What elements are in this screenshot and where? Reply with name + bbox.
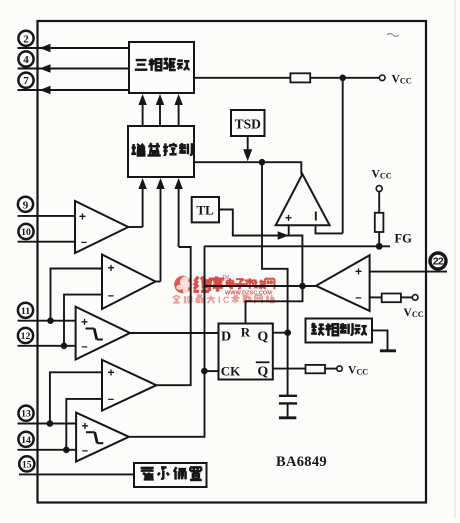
pin 14 [18,432,33,447]
svg-text:I C: I C [218,295,230,305]
text 增益控制 [131,143,192,155]
wire pin2 to three-phase-drive [18,47,130,49]
wire Q node down to capacitor [287,333,289,396]
junction pin12 node [61,343,68,350]
pin 10 [18,224,33,239]
svg-text:15: 15 [22,459,32,470]
wire op3 output riser [156,247,190,385]
junction pin11 node [47,317,54,324]
wire FG node horizontal [204,245,390,247]
pin 7 [18,73,33,88]
wire TL to torque node [219,210,302,287]
wire pin10 to op1 minus [18,241,76,243]
wire gain-control to FG-amp output node [194,162,301,174]
svg-text:D: D [221,330,231,345]
wire gain-to-drive 1 [142,98,144,126]
wire pin11 to comp1 plus [18,320,76,322]
wire CK input [204,370,218,372]
resistor R1 [290,73,310,82]
svg-text:+: + [81,419,88,433]
svg-text:+: + [81,315,88,329]
resistor R4 [306,365,326,373]
pin 12 [18,328,33,343]
pin 2 [18,31,33,46]
wire pin12 node up to op2 minus [64,295,102,346]
wire pin7 to three-phase-drive [18,89,130,91]
wire comp2 output to CK riser [129,246,205,436]
junction pin13 node [47,420,54,427]
wire pin9 to op1 plus [18,215,76,217]
svg-text:−: − [355,293,361,305]
terminal Vcc FG branch [376,186,382,192]
FG amp minus tick [315,212,317,221]
block U3 D flip-flop [219,324,273,380]
svg-text:+: + [107,261,114,275]
watermark 全球最大 [173,295,215,303]
pin 15 [19,456,34,471]
block TL [192,197,219,222]
text 三相驱动 [135,58,190,70]
terminal Vcc brake [412,295,418,301]
svg-text:FG: FG [395,232,413,246]
op-amp A3 hall amp 2 [102,255,156,310]
junction brake output node [299,283,306,290]
svg-text:+: + [285,211,292,225]
wire brake output left [204,285,316,287]
svg-text:22: 22 [433,257,444,268]
wire pin14 to comp2 minus [18,449,77,451]
svg-text:Q: Q [257,330,268,345]
svg-text:WWW.DZSC.COM: WWW.DZSC.COM [225,291,272,297]
watermark 维库 [194,276,225,291]
block hall bias 霍尔偏置 [134,463,207,487]
svg-text:−: − [81,237,87,249]
resistor R3 [382,294,401,303]
wire comp1 output to D input [130,332,219,334]
svg-text:11: 11 [21,306,30,317]
terminal Vcc top [379,75,385,81]
wire brake block to ground [372,330,388,349]
pin 22 [430,253,446,269]
wire R2 to FG node [378,232,380,246]
wire FG-amp plus input stub [288,225,290,235]
pin 9 [18,197,33,212]
ground bar capacitor [279,416,296,419]
wire Vcc to R2 [378,192,380,213]
op-amp A5 hall amp 3 [102,360,156,411]
svg-text:TL: TL [197,203,215,218]
block U1 three-phase drive 三相驱动 [129,42,194,93]
wire Vcc node down to FG amp inverting input [342,78,344,234]
pin 13 [18,406,33,421]
terminal Vcc Qbar [337,366,342,371]
wire pin11 node up to op2 plus [51,269,103,321]
wire drive output to R1 [194,77,290,79]
IC outline border [38,21,427,503]
svg-text:CK: CK [221,364,241,379]
op-amp A1 FG amplifier [276,174,330,225]
svg-text:4: 4 [23,54,29,66]
block TSD [231,110,265,136]
svg-text:R: R [241,325,251,340]
wire op2 output [156,281,161,283]
svg-text:7: 7 [23,75,29,87]
ground bar brake block [380,349,396,352]
wire brake minus to R3 [370,296,382,298]
text 缺相制动 [311,323,367,336]
pin 11 [18,303,33,318]
watermark logo disc [174,276,194,294]
wire Q output [273,332,291,334]
wire op3-output riser to gain control [178,182,180,247]
junction CK node [201,368,208,375]
pin 4 [18,51,33,66]
junction pin14 node [63,447,70,454]
hysteresis symbol comp1 [86,328,95,330]
comparator A4 hysteresis [76,307,130,360]
svg-text:2: 2 [23,33,29,45]
watermark 电子市场网 [227,278,275,289]
svg-text:−: − [108,394,114,406]
wire pin13 to comp2 plus [18,423,77,425]
svg-text:+: + [79,209,86,223]
comparator A6 hysteresis [76,413,129,462]
wire TSD node down to Q node [262,162,288,333]
wire TSD arrow [247,136,249,150]
block U2 gain control 增益控制 [128,126,194,177]
text 霍尔偏置 [141,467,202,480]
scan mark [387,34,399,37]
wire op1-output to gain control [142,182,144,227]
wire pin15 to hall bias [19,473,134,475]
svg-text:−: − [82,446,88,458]
wire pin12 to comp1 minus [18,345,76,347]
wire R1 to Vcc terminal [310,77,379,79]
resistor R2 [375,213,384,232]
watermark 采购网站 [231,295,274,303]
svg-text:10: 10 [21,227,31,238]
wire gain-to-drive 3 [178,98,180,126]
junction TSD node [259,159,266,166]
svg-text:+: + [355,265,362,279]
wire pin14 node up to op3 minus [66,399,102,450]
wire Qbar to R4 [273,368,306,370]
svg-text:14: 14 [21,435,31,446]
hysteresis symbol comp2 [86,431,95,433]
wire pin22 to brake plus [370,271,447,273]
wire op1 output [128,226,142,228]
svg-text:Q: Q [257,365,268,380]
junction Q node [284,329,291,336]
wire to FG amp minus [316,226,343,233]
wire R3 to Vcc terminal [401,296,412,298]
block missing-phase brake 缺相制动 [306,319,373,343]
wire pin13 node up to op3 plus [50,372,102,423]
wire capacitor to ground [287,403,289,417]
wire pin4 to three-phase-drive [18,68,130,70]
junction FG node [376,243,383,250]
svg-text:BA6849: BA6849 [276,454,327,470]
wire gain-to-drive 2 [159,98,161,126]
wire op2-output to gain control [160,182,162,282]
op-amp A2 hall amp 1 [75,201,128,253]
svg-text:+: + [107,366,114,380]
overbar on Q-bar [256,361,270,363]
svg-text:−: − [81,342,87,354]
wire brake node to R input [246,286,303,324]
capacitor C1 [279,395,297,397]
svg-text:12: 12 [21,331,31,342]
scanner streak [455,0,457,518]
wire R4 to Vcc terminal [325,368,337,370]
junction drive/Vcc node [339,75,346,82]
svg-text:13: 13 [21,409,31,420]
op-amp A7 brake comparator [316,255,370,311]
svg-text:TSD: TSD [235,117,262,132]
svg-text:9: 9 [23,199,29,211]
svg-text:−: − [108,291,114,303]
